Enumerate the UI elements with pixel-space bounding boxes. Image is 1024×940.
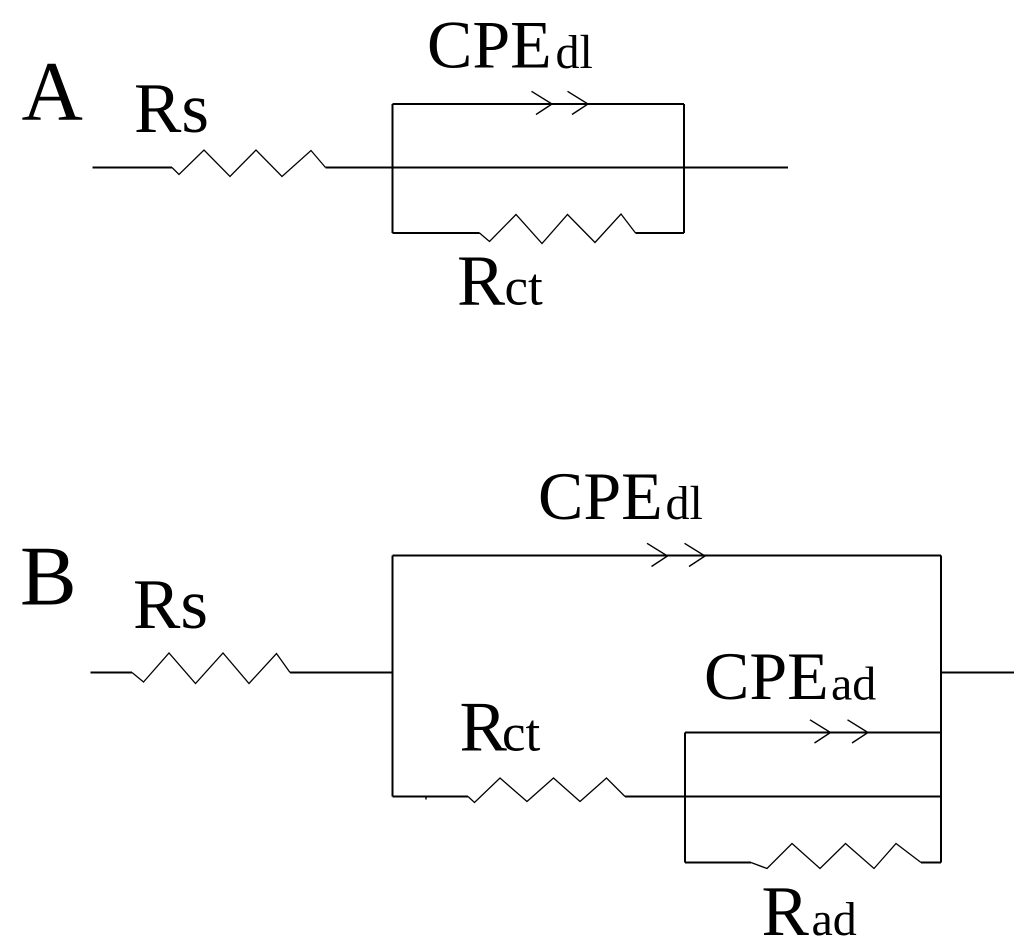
svg-text:ad: ad bbox=[812, 893, 857, 940]
svg-text:R: R bbox=[762, 873, 810, 940]
svg-text:dl: dl bbox=[666, 477, 703, 530]
svg-text:Rs: Rs bbox=[134, 70, 209, 148]
svg-text:ct: ct bbox=[502, 705, 541, 763]
svg-text:CPE: CPE bbox=[538, 458, 663, 534]
svg-text:CPE: CPE bbox=[427, 7, 552, 83]
svg-text:A: A bbox=[22, 45, 83, 139]
svg-text:B: B bbox=[20, 530, 77, 624]
svg-text:ct: ct bbox=[505, 259, 544, 317]
svg-text:R: R bbox=[457, 241, 505, 321]
svg-text:CPE: CPE bbox=[704, 638, 829, 714]
svg-text:Rs: Rs bbox=[133, 566, 208, 644]
svg-text:ad: ad bbox=[831, 658, 876, 711]
svg-text:R: R bbox=[460, 689, 508, 767]
svg-text:dl: dl bbox=[556, 26, 593, 79]
